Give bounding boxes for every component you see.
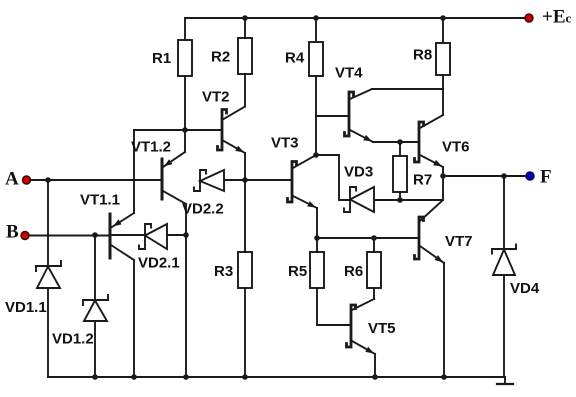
wire VT2 base bus xyxy=(134,129,222,131)
transistor VT6 xyxy=(415,115,470,167)
node R2 top rail junction xyxy=(242,15,248,21)
node VD1.2 ground junction xyxy=(92,374,98,380)
svg-text:R2: R2 xyxy=(211,49,230,66)
node R7 bottom junction xyxy=(397,197,403,203)
resistor R1 xyxy=(152,40,192,76)
diode VD2.1 xyxy=(138,224,180,272)
node VT2 emitter / A-line junction xyxy=(242,177,248,183)
diode VD2.2 xyxy=(182,170,224,218)
svg-text:VT2: VT2 xyxy=(202,89,230,106)
svg-text:VD3: VD3 xyxy=(344,164,373,181)
svg-text:VT3: VT3 xyxy=(271,135,299,152)
svg-text:VT1.2: VT1.2 xyxy=(131,139,171,156)
svg-text:R7: R7 xyxy=(413,172,432,189)
wire VT7 base bus xyxy=(317,237,419,239)
node VT5 emitter ground junction xyxy=(372,374,378,380)
wire VT1.1 collector column xyxy=(133,260,135,377)
wire VD2.1 to VT1.2 collector column xyxy=(167,234,186,236)
wire R8 top lead xyxy=(442,18,444,43)
wire VD3 anode to VT7 collector xyxy=(374,199,443,201)
wire VD1.1 bottom lead xyxy=(47,288,49,377)
transistor VT1.1 xyxy=(80,192,134,261)
node VT3 collector / VD3 junction xyxy=(313,152,319,158)
transistor VT2 xyxy=(202,89,245,154)
node R5 top junction xyxy=(314,235,320,241)
node R8 top rail junction xyxy=(440,15,446,21)
wire VT4 base lead xyxy=(316,115,349,117)
diode VD1.1 xyxy=(5,261,61,316)
resistor R6 xyxy=(344,252,381,288)
node VT7 emitter ground junction xyxy=(441,374,447,380)
node VT1.2 collector ground junction xyxy=(183,374,189,380)
node VT1.1 collector ground junction xyxy=(131,374,137,380)
node VD2.1 / collector column junction xyxy=(183,232,189,238)
wire R3 bottom to ground rail xyxy=(244,288,246,377)
wire input A line xyxy=(31,179,162,181)
svg-text:VT4: VT4 xyxy=(335,65,363,82)
svg-text:B: B xyxy=(6,222,19,243)
diode VD1.2 xyxy=(52,295,108,348)
diode VD4 xyxy=(492,245,540,298)
wire VD4 bottom lead xyxy=(503,275,505,377)
wire VD1.1 top lead xyxy=(47,180,49,266)
svg-text:A: A xyxy=(5,169,19,190)
node R3 ground junction xyxy=(242,374,248,380)
wire output line to F xyxy=(443,175,527,177)
transistor VT1.2 xyxy=(131,139,186,205)
resistor R7 xyxy=(393,156,432,192)
svg-text:R4: R4 xyxy=(285,50,305,67)
node output junction at VT6 emitter xyxy=(440,173,446,179)
terminal A xyxy=(5,169,31,190)
wire VD4 top lead xyxy=(503,176,505,249)
wire R1 top lead xyxy=(184,18,186,40)
resistor R5 xyxy=(288,252,324,288)
svg-text:R6: R6 xyxy=(344,263,363,280)
wire VD3 branch from VT3 collector xyxy=(316,155,350,200)
resistor R8 xyxy=(413,43,450,75)
wire R5 top lead xyxy=(316,238,318,252)
wire VT3 emitter column xyxy=(316,208,318,238)
wire A line VD2.2 to VT3 base xyxy=(224,179,292,181)
wire VT7 emitter column xyxy=(443,263,445,377)
svg-text:VD2.1: VD2.1 xyxy=(138,255,180,272)
svg-text:F: F xyxy=(540,167,552,188)
wire VT1.1 emitter riser xyxy=(133,130,135,213)
svg-text:VD4: VD4 xyxy=(510,280,540,297)
wire VD1.2 top lead xyxy=(94,235,96,300)
node B / VD1.2 junction xyxy=(92,232,98,238)
wire R8 bottom to VT6 collector xyxy=(442,75,444,115)
wire VT6 emitter column to collector node xyxy=(442,167,444,200)
wire R4 bottom column xyxy=(315,76,317,155)
wire R5 bottom to VT5 base xyxy=(317,288,350,325)
svg-text:R3: R3 xyxy=(214,263,233,280)
svg-text:VD1.1: VD1.1 xyxy=(5,299,47,316)
svg-text:VD2.2: VD2.2 xyxy=(182,201,224,218)
wire VT2 emitter column to R3 xyxy=(244,153,246,252)
node VD4 junction xyxy=(501,173,507,179)
resistor R3 xyxy=(214,252,252,288)
wire R1 bottom to VT1.2 emitter node xyxy=(184,76,186,152)
svg-text:+Ec: +Ec xyxy=(542,7,572,28)
wire VT4 collector to R8 column xyxy=(372,88,443,90)
ground xyxy=(497,377,513,384)
transistor VT5 xyxy=(347,299,396,354)
terminal B xyxy=(6,222,29,243)
terminal F xyxy=(526,167,552,188)
node R6 top junction xyxy=(371,235,377,241)
transistor VT4 xyxy=(335,65,373,143)
wire VT1.2 collector column xyxy=(185,204,187,377)
resistor R2 xyxy=(211,38,252,74)
wire R4 top lead xyxy=(315,18,317,42)
node R7 top junction xyxy=(397,139,403,145)
wire R2 top lead xyxy=(244,18,246,38)
wire R7 bottom lead xyxy=(399,192,401,200)
svg-text:VD1.2: VD1.2 xyxy=(52,331,94,348)
wire input B line xyxy=(30,235,110,237)
wire VD1.2 bottom lead xyxy=(94,321,96,377)
node A / VD1.1 junction xyxy=(45,177,51,183)
resistor R4 xyxy=(285,42,323,76)
node R1/base bus junction xyxy=(182,127,188,133)
wire B line VT1.1 to VD2.1 xyxy=(110,234,145,236)
svg-text:R1: R1 xyxy=(152,50,171,67)
transistor VT3 xyxy=(271,135,317,209)
wire top power rail xyxy=(185,17,529,19)
svg-text:R8: R8 xyxy=(413,47,432,64)
svg-text:R5: R5 xyxy=(288,263,307,280)
diode VD3 xyxy=(344,164,374,213)
transistor VT7 xyxy=(415,200,473,263)
wire R6 top lead xyxy=(373,238,375,252)
svg-text:VT5: VT5 xyxy=(368,320,396,337)
svg-text:VT6: VT6 xyxy=(442,139,470,156)
wire VT5 emitter lead xyxy=(374,354,376,377)
wire VT4 emitter to VT6 base xyxy=(373,141,419,143)
terminal +Ec xyxy=(525,7,572,28)
svg-text:VT1.1: VT1.1 xyxy=(80,192,120,209)
wire R6 bottom to VT5 collector xyxy=(373,288,375,299)
node R4 top rail junction xyxy=(313,15,319,21)
wire R2 bottom to VT2 collector xyxy=(244,74,246,107)
wire R7 top lead xyxy=(399,142,401,156)
svg-text:VT7: VT7 xyxy=(445,233,473,250)
wire ground rail xyxy=(48,376,505,378)
